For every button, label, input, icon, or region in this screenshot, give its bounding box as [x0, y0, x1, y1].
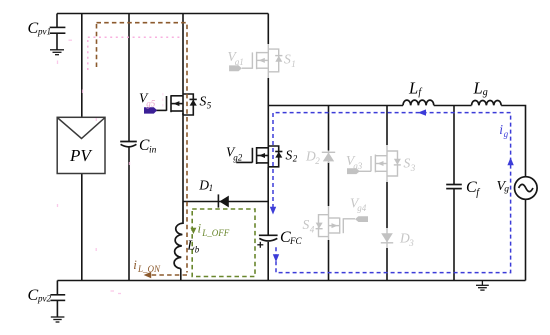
transistor S2 (MOSFET)	[236, 146, 282, 167]
svg-text:in: in	[149, 146, 157, 156]
capacitor Cin	[120, 142, 137, 147]
diode D1	[217, 194, 219, 207]
wire S4 to bottom	[328, 240, 330, 281]
label iL_ON	[133, 257, 161, 274]
svg-text:PV: PV	[69, 146, 93, 165]
wire after Lg to corner	[501, 106, 525, 177]
PV panel	[57, 117, 105, 173]
wire Vg source lower	[525, 200, 527, 281]
label Vg5	[139, 91, 156, 109]
wire bottom rail	[57, 280, 525, 282]
label Lf	[408, 78, 422, 98]
wire S5 leg upper	[182, 14, 184, 95]
label Vg3	[346, 153, 363, 171]
svg-text:1: 1	[209, 183, 214, 193]
arrow blue down (above CFC)	[270, 207, 276, 215]
gate stub Vg3 (gray)	[347, 168, 360, 174]
svg-text:S: S	[200, 93, 207, 108]
ground below Cpv1	[50, 50, 64, 55]
capacitor Cf	[446, 185, 462, 189]
svg-text:S: S	[286, 148, 293, 163]
label iL_OFF	[198, 220, 230, 238]
wire bridge top rail	[268, 105, 403, 107]
ground bottom rail	[476, 281, 489, 291]
inductor Lf	[403, 100, 434, 105]
svg-text:L_ON: L_ON	[137, 264, 161, 274]
svg-text:g1: g1	[235, 57, 244, 67]
arrow blue down (below CFC)	[273, 254, 279, 262]
current path ig (blue dashed)	[273, 113, 511, 273]
wire left leg upper	[81, 14, 83, 118]
wire left leg lower	[81, 174, 83, 281]
label Cf	[466, 179, 480, 199]
wire Cin leg lower	[128, 147, 130, 280]
label Cpv2	[28, 287, 52, 304]
svg-text:L: L	[408, 78, 418, 97]
svg-text:4: 4	[310, 225, 315, 235]
label S4	[303, 217, 315, 235]
ground below Cpv2	[51, 317, 65, 322]
svg-text:f: f	[476, 187, 480, 198]
transistor S5 (MOSFET)	[156, 94, 197, 115]
svg-text:FC: FC	[289, 236, 302, 246]
inductor Lg	[472, 100, 502, 105]
diode D2 (gray)	[322, 151, 335, 164]
wire S2 to CFC	[267, 167, 269, 235]
svg-text:g3: g3	[353, 161, 363, 171]
svg-text:i: i	[198, 220, 202, 235]
svg-text:5: 5	[207, 100, 212, 110]
transistor S1 (gray, MOSFET)	[242, 44, 283, 78]
stray pink dotted path	[88, 37, 181, 70]
wire D2 to S4	[328, 163, 330, 207]
label Cpv1	[28, 20, 52, 37]
current path iL_OFF (green dashed box)	[192, 209, 255, 277]
wire between Lf Lg	[434, 105, 472, 107]
svg-text:i: i	[499, 122, 503, 137]
svg-text:C: C	[28, 287, 39, 304]
svg-text:g2: g2	[233, 152, 243, 162]
transistor S3 (gray, MOSFET)	[359, 145, 401, 182]
wire Cf leg upper	[453, 106, 455, 185]
diode D3 (gray)	[381, 228, 393, 248]
gate stub Vg5 (purple)	[144, 107, 157, 113]
label D1	[198, 177, 213, 193]
gate stub Vg4 (gray)	[355, 216, 368, 222]
wire Cf leg lower	[453, 189, 455, 281]
wire Cin leg upper	[128, 14, 130, 142]
label S3	[404, 156, 416, 173]
label S2	[286, 148, 298, 164]
wire S5 leg to D1 node	[182, 113, 184, 202]
wire Lb lower	[180, 269, 182, 281]
inductor Lb	[174, 202, 183, 269]
label ig	[499, 122, 508, 139]
wire top rail	[57, 13, 268, 15]
svg-text:1: 1	[291, 59, 296, 69]
svg-text:b: b	[195, 244, 200, 254]
label D3	[399, 231, 414, 249]
wire S1S2 leg middle	[267, 78, 269, 146]
svg-text:S: S	[303, 217, 310, 232]
svg-text:g: g	[504, 185, 509, 195]
svg-text:2: 2	[293, 153, 298, 163]
label Vg source	[497, 179, 510, 194]
arrow blue up (right leg)	[507, 158, 513, 166]
label S5	[200, 93, 212, 110]
label Lg	[473, 78, 488, 98]
svg-text:L: L	[473, 78, 483, 97]
svg-text:3: 3	[408, 238, 414, 248]
label Vg1	[228, 49, 244, 67]
svg-text:2: 2	[315, 156, 320, 166]
capacitor Cpv1	[50, 14, 66, 50]
svg-text:3: 3	[410, 163, 416, 173]
svg-text:g: g	[483, 87, 488, 98]
transistor S4 (gray, mirrored MOSFET)	[316, 206, 355, 240]
svg-text:g5: g5	[146, 99, 156, 109]
label Lb	[186, 239, 200, 255]
current path iL_ON (brown dashed)	[97, 23, 188, 275]
wire S1S2 leg top	[267, 14, 269, 45]
plus sign CFC	[257, 242, 263, 248]
wire S3D3 leg top	[386, 106, 388, 146]
label S1	[284, 52, 296, 70]
svg-text:i: i	[133, 257, 137, 272]
capacitor CFC	[259, 235, 278, 241]
gate stub Vg1 (gray)	[229, 65, 242, 71]
label CFC	[280, 229, 302, 246]
svg-text:pv1: pv1	[37, 27, 51, 37]
svg-text:L_OFF: L_OFF	[201, 228, 230, 238]
faint pink speckles	[58, 40, 163, 293]
label Vg4	[350, 196, 367, 214]
wire D3 to bottom	[386, 248, 388, 281]
svg-text:D: D	[198, 177, 209, 192]
svg-text:S: S	[404, 156, 411, 171]
wire CFC to bottom	[267, 242, 269, 281]
arrow blue left (top rail)	[418, 109, 426, 115]
svg-text:pv2: pv2	[37, 294, 51, 304]
svg-text:g4: g4	[357, 203, 367, 213]
source Vg (AC)	[515, 177, 538, 200]
label Vg2	[226, 144, 243, 162]
wire D2S4 leg top	[328, 106, 330, 151]
capacitor Cpv2	[50, 281, 65, 317]
svg-text:S: S	[284, 52, 291, 67]
svg-text:g: g	[504, 129, 509, 139]
svg-text:C: C	[28, 20, 39, 37]
label D2	[305, 149, 320, 167]
svg-text:f: f	[418, 87, 422, 98]
wire S3 to D3	[386, 182, 388, 228]
label Cin	[139, 137, 157, 156]
wire D1 horizontal	[183, 201, 268, 203]
